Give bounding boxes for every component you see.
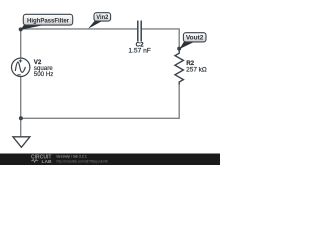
R2 labels [186, 60, 207, 73]
node dot Vout2 [177, 47, 181, 51]
capacitor C2 plates [138, 21, 141, 42]
voltage source V2 [12, 58, 30, 76]
svg-text:HighPassFilter: HighPassFilter [27, 17, 69, 24]
V2 labels [34, 59, 54, 78]
node dot ground junction [19, 116, 23, 120]
svg-text:Vin2: Vin2 [96, 14, 109, 21]
Vin2 flag pointer [88, 20, 102, 29]
wire left vertical top segment [20, 29, 22, 58]
wire left vertical bottom segment to ground [20, 77, 22, 137]
capacitor C2 labels [128, 42, 151, 55]
svg-text:500 Hz: 500 Hz [34, 71, 54, 78]
footer bar [0, 154, 220, 166]
footer logo zigzag [31, 159, 38, 162]
Vin2 flag box [94, 13, 111, 21]
HighPassFilter flag pointer [21, 23, 46, 30]
resistor R2 [175, 49, 183, 85]
node dot top-left [19, 27, 23, 31]
svg-text:tareswtp / lab 3.2.1: tareswtp / lab 3.2.1 [57, 155, 87, 159]
svg-text:Vout2: Vout2 [186, 36, 204, 42]
svg-text:LAB: LAB [42, 159, 53, 165]
svg-text:http://circuitlab.com/c87f9bpp: http://circuitlab.com/c87f9bppuutz45 [57, 159, 108, 163]
Vout2 flag pointer [180, 40, 196, 49]
svg-text:1.57 nF: 1.57 nF [128, 48, 151, 55]
HighPassFilter flag box [23, 14, 72, 25]
Vout2 flag box [183, 33, 206, 42]
wire capacitor right plate to top-right corner and down to Vout2 node [142, 29, 179, 49]
ground [13, 137, 30, 148]
svg-text:257 kΩ: 257 kΩ [186, 66, 207, 73]
wire top-left to capacitor left plate [21, 28, 138, 30]
wire resistor bottom to bottom-right corner [21, 84, 179, 118]
